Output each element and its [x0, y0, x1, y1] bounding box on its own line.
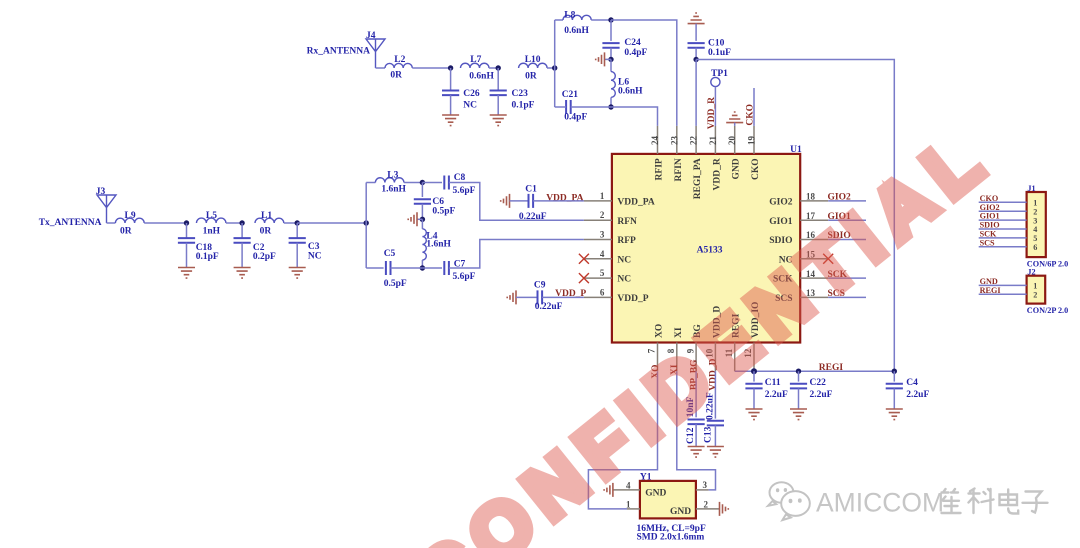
antenna J3 (Tx) — [97, 195, 116, 223]
wire Tx antenna to L9 — [107, 222, 116, 224]
pin 18 GIO2 stub — [800, 200, 828, 202]
capacitor C6 — [414, 199, 431, 204]
svg-text:C3: C3 — [308, 242, 320, 252]
svg-text:J2: J2 — [1027, 268, 1035, 277]
ground left of L4 — [408, 212, 417, 226]
svg-text:CKO: CKO — [751, 158, 761, 180]
svg-text:2: 2 — [704, 499, 709, 509]
ground under C18 — [178, 268, 195, 279]
wire Tx to matching network — [297, 222, 366, 224]
J2 wire pin 1 — [979, 284, 1027, 286]
wire node M3 to ground — [417, 218, 422, 220]
ground left of L6 — [596, 52, 605, 66]
svg-text:0R: 0R — [390, 71, 402, 81]
pin 7 XO stub — [657, 343, 659, 372]
node Tx2 — [239, 220, 244, 225]
node Rx1 — [448, 65, 453, 70]
capacitor C8 — [444, 176, 449, 190]
wire L2 to node — [412, 67, 450, 69]
capacitor C21 — [566, 100, 571, 114]
wire ground to C10 — [695, 24, 697, 41]
pin 1 VDD_PA stub — [584, 200, 612, 202]
pin 14 SCK stub — [800, 277, 828, 279]
wire node A to RFIN pin — [611, 20, 677, 126]
svg-text:C9: C9 — [534, 280, 546, 290]
svg-text:REGI: REGI — [980, 286, 1001, 295]
wire top to L3 — [366, 182, 375, 184]
wire node A to C24 — [610, 20, 612, 41]
wire L1 to node — [284, 222, 297, 224]
svg-text:0.6nH: 0.6nH — [564, 26, 589, 36]
wire net GIO1 — [828, 219, 866, 221]
svg-text:1: 1 — [600, 191, 605, 201]
svg-text:J3: J3 — [96, 187, 106, 197]
capacitor C2 — [234, 238, 251, 243]
svg-text:REGI_PA: REGI_PA — [693, 158, 703, 199]
svg-text:SDIO: SDIO — [980, 221, 1000, 230]
wire node to C11 — [753, 371, 755, 381]
inductor L5 — [197, 218, 226, 223]
svg-text:GIO1: GIO1 — [769, 217, 792, 227]
svg-text:C23: C23 — [512, 89, 529, 99]
svg-text:Rx_ANTENNA: Rx_ANTENNA — [307, 47, 370, 57]
svg-text:NC: NC — [617, 255, 631, 265]
svg-text:2.2uF: 2.2uF — [765, 390, 788, 400]
wire C9 to pin 6 — [542, 296, 584, 298]
ground above pin 20 — [726, 112, 743, 123]
svg-text:0.6nH: 0.6nH — [618, 86, 643, 96]
svg-text:5.6pF: 5.6pF — [453, 186, 476, 196]
capacitor C10 — [688, 43, 705, 48]
inductor L9 — [115, 218, 144, 223]
svg-text:1: 1 — [1033, 199, 1037, 208]
capacitor C26 — [442, 91, 459, 96]
wire node M2 to C8 — [422, 182, 442, 184]
ground left of Y1 — [604, 483, 613, 497]
J1 wire pin 4 — [979, 228, 1027, 230]
capacitor C12 — [688, 420, 705, 425]
node M4 — [420, 265, 425, 270]
svg-text:TP1: TP1 — [711, 69, 728, 79]
node M3 — [420, 217, 425, 222]
wire C13 to ground — [714, 425, 716, 446]
svg-text:C4: C4 — [906, 378, 918, 388]
svg-text:Y1: Y1 — [640, 472, 652, 482]
svg-text:C5: C5 — [384, 249, 396, 259]
wire net SCS — [828, 296, 866, 298]
svg-text:18: 18 — [806, 192, 816, 202]
wire node to C18 — [186, 223, 188, 238]
inductor L2 — [385, 63, 412, 68]
inductor L7 — [461, 63, 490, 68]
pin 12 VDD_IO stub — [753, 343, 755, 372]
svg-text:RFIN: RFIN — [674, 158, 684, 181]
svg-text:C22: C22 — [810, 378, 827, 388]
wire pin 9 to C12 — [695, 371, 697, 417]
J1 wire pin 5 — [979, 237, 1027, 239]
svg-text:L2: L2 — [394, 55, 405, 65]
capacitor C18 — [178, 238, 195, 243]
wire C18 to ground — [186, 243, 188, 268]
wire L8 to node A — [591, 19, 611, 21]
J1 wire pin 6 — [979, 246, 1027, 248]
wire C12 to ground — [695, 424, 697, 446]
svg-text:0.22uF: 0.22uF — [535, 302, 563, 312]
ground under C13 — [707, 447, 724, 458]
svg-text:5: 5 — [600, 268, 605, 278]
svg-text:3: 3 — [703, 480, 708, 490]
node C (C21 net) — [608, 104, 613, 109]
svg-text:0R: 0R — [525, 72, 537, 82]
svg-text:0.1pF: 0.1pF — [196, 252, 219, 262]
wire ground to pin 20 — [734, 123, 736, 126]
wire node M2 to C6 — [421, 183, 423, 198]
inductor L6 — [610, 59, 612, 71]
svg-text:A5133: A5133 — [697, 245, 723, 255]
svg-text:VDD_PA: VDD_PA — [617, 198, 654, 208]
svg-text:1nH: 1nH — [203, 227, 221, 237]
ground right of Y1 — [720, 502, 729, 516]
connector J1 body — [1027, 192, 1046, 257]
pin 21 VDD_R stub — [714, 126, 716, 154]
svg-text:C11: C11 — [765, 378, 781, 388]
svg-text:6: 6 — [600, 287, 605, 297]
pin 15 NC stub — [800, 258, 828, 260]
svg-text:SMD 2.0x1.6mm: SMD 2.0x1.6mm — [637, 533, 705, 543]
pin 16 SDIO stub — [800, 239, 828, 241]
pin 17 GIO1 stub — [800, 219, 828, 221]
svg-text:VDD_P: VDD_P — [617, 294, 648, 304]
inductor L4 — [421, 219, 423, 229]
svg-text:3: 3 — [1033, 216, 1037, 225]
svg-text:C13: C13 — [703, 426, 713, 443]
ground left of C9 — [507, 290, 516, 304]
Y1 pin 4 stub — [613, 489, 640, 491]
svg-text:RFP: RFP — [617, 236, 636, 246]
svg-text:0R: 0R — [260, 227, 272, 237]
svg-text:2.2uF: 2.2uF — [810, 390, 833, 400]
wire C26 to ground — [450, 95, 452, 115]
capacitor C11 — [745, 384, 762, 389]
svg-text:0.22uF: 0.22uF — [519, 212, 547, 222]
pin 13 SCS stub — [800, 296, 828, 298]
svg-text:NC: NC — [308, 252, 322, 262]
wire C23 to ground — [497, 95, 499, 115]
wire XO to Y1 pin 1 — [588, 371, 657, 509]
wire L3 to node M2 — [404, 182, 423, 184]
svg-text:0.1uF: 0.1uF — [708, 48, 731, 58]
svg-text:GND: GND — [645, 488, 666, 498]
wire REGI rail — [735, 370, 895, 372]
svg-text:2: 2 — [1033, 207, 1037, 216]
capacitor C9 — [538, 290, 543, 304]
ground left of C1 — [501, 194, 510, 208]
no-connect X pin 4 — [579, 254, 589, 264]
wire L5 to node — [226, 222, 242, 224]
svg-text:21: 21 — [708, 136, 718, 146]
wire node B to ground — [605, 58, 612, 60]
ground under C4 — [886, 409, 903, 420]
svg-text:C24: C24 — [624, 38, 641, 48]
svg-text:23: 23 — [669, 136, 679, 146]
capacitor C1 — [529, 194, 534, 208]
test point TP1 — [711, 77, 720, 86]
svg-text:CKO: CKO — [746, 104, 756, 126]
svg-text:NC: NC — [463, 101, 477, 111]
svg-text:C1: C1 — [525, 185, 537, 195]
pin 10 VDD_D stub — [714, 343, 716, 372]
svg-text:GND: GND — [732, 158, 742, 179]
ground under C2 — [234, 268, 251, 279]
capacitor C4 — [886, 384, 903, 389]
pin 23 RFIN stub — [676, 126, 678, 154]
wire C10 to node D — [695, 48, 697, 60]
wire node M4 to C7 — [422, 267, 442, 269]
wire node to C26 — [450, 68, 452, 90]
wire net SCK — [828, 277, 866, 279]
capacitor C22 — [790, 384, 807, 389]
wire Rx antenna to L2 — [376, 67, 386, 69]
svg-text:C8: C8 — [454, 173, 466, 183]
svg-text:1.6nH: 1.6nH — [381, 185, 406, 195]
Y1 pin 2 stub — [696, 508, 720, 510]
svg-text:0.1pF: 0.1pF — [512, 101, 535, 111]
svg-text:4: 4 — [600, 249, 605, 259]
wire pin 10 to C13 — [714, 371, 716, 418]
svg-text:L10: L10 — [525, 55, 541, 65]
svg-text:J1: J1 — [1027, 184, 1035, 193]
wire node to C2 — [241, 223, 243, 238]
svg-text:4: 4 — [1033, 225, 1037, 234]
node REGI-C22 — [796, 369, 801, 374]
svg-text:1: 1 — [1033, 282, 1037, 291]
wire C21 to RFIP pin — [571, 107, 658, 126]
op-amp U1 body (A5133) — [612, 154, 800, 343]
svg-text:C6: C6 — [432, 197, 444, 207]
wire CKO stub pin 19 — [753, 88, 755, 126]
node Tx3 — [295, 220, 300, 225]
wire C6 to node M3 — [421, 204, 423, 220]
wire C2 to ground — [241, 243, 243, 268]
svg-text:C10: C10 — [708, 39, 725, 49]
svg-text:0R: 0R — [120, 227, 132, 237]
wire C1 to pin 1 — [533, 200, 584, 202]
wire VDD_R net to REGI net — [696, 60, 894, 372]
pin 4 NC stub — [584, 258, 612, 260]
wire L6 to node C — [610, 97, 612, 107]
svg-text:19: 19 — [747, 136, 757, 146]
wire node D to pin 22 — [695, 60, 697, 126]
svg-text:NC: NC — [617, 275, 631, 285]
svg-text:REGI: REGI — [819, 363, 844, 373]
J1 wire pin 2 — [979, 210, 1027, 212]
J1 wire pin 1 — [979, 201, 1027, 203]
pin 2 RFN stub — [584, 219, 612, 221]
antenna J4 (Rx) — [366, 39, 385, 68]
wire L10 to node — [547, 67, 555, 69]
svg-text:0.5pF: 0.5pF — [384, 279, 407, 289]
svg-text:CON/2P 2.0: CON/2P 2.0 — [1027, 306, 1068, 315]
svg-text:2: 2 — [600, 210, 605, 220]
wire C3 to ground — [296, 243, 298, 268]
svg-text:GIO2: GIO2 — [980, 203, 1000, 212]
wire Rx node vertical — [554, 20, 556, 107]
svg-text:0.2pF: 0.2pF — [253, 252, 276, 262]
wire C22 to ground — [798, 388, 800, 409]
ground above C10 — [688, 13, 705, 24]
svg-text:0.5pF: 0.5pF — [432, 206, 455, 216]
wire L7 to node — [489, 67, 498, 69]
Y1 pin 3 stub — [696, 489, 709, 491]
pin 19 CKO stub — [753, 126, 755, 154]
svg-text:U1: U1 — [790, 145, 802, 155]
wire node to C22 — [798, 371, 800, 381]
svg-text:17: 17 — [806, 211, 816, 221]
Y1 pin 1 stub — [627, 508, 640, 510]
svg-text:SCS: SCS — [980, 238, 995, 247]
svg-text:L3: L3 — [387, 170, 398, 180]
logo WeChat icon — [768, 482, 810, 520]
logo text (Chinese characters) — [942, 489, 1048, 514]
svg-text:1: 1 — [626, 499, 631, 509]
wire ground to C9 — [516, 296, 538, 298]
wire C11 to ground — [753, 388, 755, 409]
wire C21 left — [555, 106, 566, 108]
node D (VDD_R net) — [693, 57, 698, 62]
inductor L3 — [375, 178, 404, 183]
svg-text:L1: L1 — [261, 211, 272, 221]
wire C4 to ground — [893, 388, 895, 409]
svg-text:L5: L5 — [206, 211, 217, 221]
pin 6 VDD_P stub — [584, 296, 612, 298]
inductor L1 — [255, 218, 284, 223]
wire to L8 — [555, 19, 563, 21]
capacitor C24 — [602, 43, 619, 48]
node A (C24 top) — [608, 17, 613, 22]
svg-text:GND: GND — [980, 277, 998, 286]
node Rx3 — [552, 65, 557, 70]
svg-text:5: 5 — [1033, 234, 1037, 243]
svg-text:L8: L8 — [564, 11, 575, 21]
node Tx1 — [184, 220, 189, 225]
wire L4 to node M4 — [421, 260, 423, 268]
capacitor C13 — [707, 421, 724, 426]
capacitor C3 — [289, 238, 306, 243]
wire C7 to pin 3 RFP — [449, 240, 584, 269]
node Rx2 — [496, 65, 501, 70]
ground under C23 — [490, 115, 507, 126]
capacitor C7 — [444, 261, 449, 275]
wire node to C23 — [497, 68, 499, 90]
pin 24 RFIP stub — [657, 126, 659, 154]
svg-text:3: 3 — [600, 230, 605, 240]
wire bottom to C5 — [366, 267, 383, 269]
capacitor C5 — [386, 261, 391, 275]
svg-text:VDD_R: VDD_R — [712, 158, 722, 190]
svg-text:0.4pF: 0.4pF — [624, 48, 647, 58]
J1 wire pin 3 — [979, 219, 1027, 221]
svg-text:24: 24 — [650, 136, 660, 146]
svg-text:XO: XO — [655, 324, 665, 338]
wire node to C4 — [893, 371, 895, 381]
pin 11 REGI stub — [734, 343, 736, 372]
node REGI-C4 — [892, 369, 897, 374]
wire node to C3 — [296, 223, 298, 238]
node REGI-C11 (pin 12) — [751, 368, 757, 374]
inductor L8 — [563, 15, 591, 20]
svg-text:20: 20 — [727, 136, 737, 146]
inductor L10 — [519, 63, 548, 68]
wire ground to C1 — [510, 200, 529, 202]
wire net SDIO — [828, 239, 866, 241]
node M1 (network left) — [364, 220, 369, 225]
svg-text:VDD_R: VDD_R — [707, 97, 717, 129]
wire XI to Y1 pin 3 — [677, 371, 716, 490]
capacitor C23 — [490, 91, 507, 96]
ground under C3 — [289, 268, 306, 279]
svg-text:C26: C26 — [463, 89, 480, 99]
svg-text:L7: L7 — [470, 55, 481, 65]
wire L9 to node — [144, 222, 186, 224]
ground under C26 — [442, 115, 459, 126]
svg-text:J4: J4 — [366, 31, 376, 41]
svg-text:RFN: RFN — [617, 217, 637, 227]
wire C24 to node B — [610, 48, 612, 60]
svg-text:VDD_PA: VDD_PA — [546, 193, 583, 203]
svg-text:2.2uF: 2.2uF — [906, 390, 929, 400]
no-connect X pin 5 — [579, 273, 589, 283]
node B (L6 top) — [608, 57, 613, 62]
wire C8 to pin 2 RFN — [449, 183, 584, 221]
wire TP1 to pin 21 — [714, 87, 716, 126]
svg-text:GIO2: GIO2 — [769, 198, 792, 208]
svg-text:GIO1: GIO1 — [980, 212, 1000, 221]
svg-text:AMICCOM: AMICCOM — [816, 488, 944, 518]
watermark CONFIDENTIAL — [400, 112, 1006, 548]
pin 3 RFP stub — [584, 239, 612, 241]
pin 20 GND stub — [734, 126, 736, 154]
svg-text:0.4pF: 0.4pF — [564, 113, 587, 123]
pin 5 NC stub — [584, 277, 612, 279]
svg-text:6: 6 — [1033, 243, 1037, 252]
wire C5 to node M4 — [391, 267, 423, 269]
svg-text:0.6nH: 0.6nH — [469, 72, 494, 82]
crystal Y1 body — [640, 481, 696, 519]
J2 wire pin 2 — [979, 293, 1027, 295]
pin 22 REGI_PA stub — [695, 126, 697, 154]
svg-text:GND: GND — [670, 507, 691, 517]
svg-text:2: 2 — [1033, 291, 1037, 300]
svg-text:1.6nH: 1.6nH — [426, 240, 451, 250]
svg-text:RFIP: RFIP — [655, 158, 665, 180]
svg-text:SCK: SCK — [980, 230, 997, 239]
wire network left vertical — [365, 183, 367, 269]
node M2 — [420, 180, 425, 185]
svg-text:C21: C21 — [562, 90, 579, 100]
wire net GIO2 — [828, 200, 866, 202]
svg-text:5.6pF: 5.6pF — [453, 272, 476, 282]
ground under C12 — [688, 447, 705, 458]
svg-text:Tx_ANTENNA: Tx_ANTENNA — [39, 218, 102, 228]
pin 8 XI stub — [676, 343, 678, 372]
connector J2 body — [1027, 276, 1046, 304]
svg-text:22: 22 — [689, 136, 699, 146]
svg-text:L9: L9 — [125, 211, 136, 221]
no-connect X pin 15 — [823, 254, 833, 264]
ground under C22 — [790, 409, 807, 420]
pin 9 BG stub — [695, 343, 697, 372]
ground under C11 — [746, 409, 763, 420]
